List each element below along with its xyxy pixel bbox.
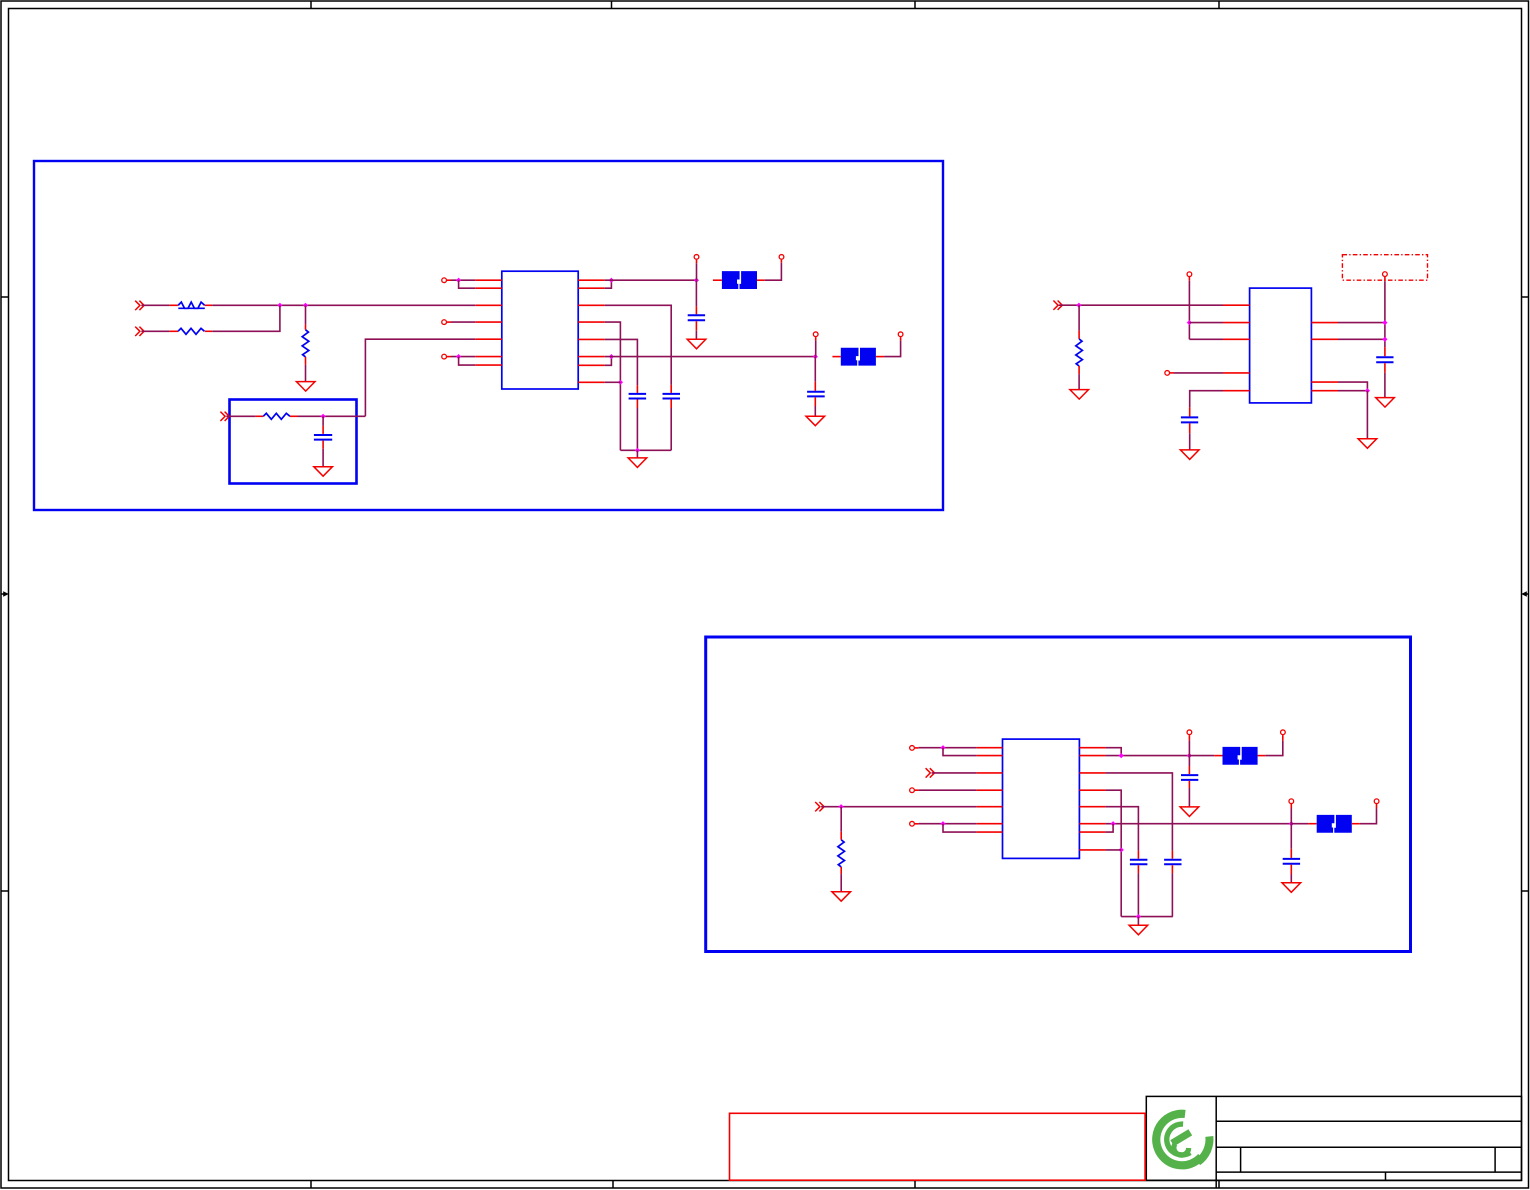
pin 9 [1079, 755, 1105, 757]
wire [1366, 391, 1368, 439]
wire [459, 357, 476, 366]
wire [1265, 741, 1283, 756]
junction [813, 354, 818, 359]
capacitor C2a [629, 385, 647, 450]
pin 1 [977, 747, 1003, 749]
terminal circle [1281, 730, 1286, 735]
capacitor C2b [663, 385, 681, 450]
ground [1282, 883, 1301, 893]
junction [940, 821, 945, 826]
terminal circle [813, 332, 818, 337]
wire [1105, 849, 1121, 851]
junction [1111, 821, 1116, 826]
wire [1189, 338, 1223, 340]
junction [940, 745, 945, 750]
terminal circle [1165, 371, 1170, 376]
wire [605, 305, 672, 385]
pin 5 [977, 806, 1003, 808]
pin 6 [1311, 322, 1338, 324]
pin stub [876, 356, 884, 358]
pin stub [1258, 755, 1266, 757]
ground [314, 467, 333, 477]
pin 7 [475, 364, 502, 366]
wire [1105, 807, 1138, 851]
port P3 [220, 412, 229, 421]
junction [1076, 303, 1081, 308]
pin 3 [1223, 338, 1250, 340]
IC U2 [1250, 288, 1312, 403]
company logo [1156, 1114, 1209, 1166]
pin 13 [578, 356, 605, 358]
wire [451, 356, 475, 358]
resistor R5 vertical [1076, 305, 1083, 389]
wire [605, 339, 638, 385]
wire [605, 356, 816, 358]
junction [277, 303, 282, 308]
port P1 [135, 301, 144, 310]
junction [694, 278, 699, 283]
junction [1382, 337, 1387, 342]
pin stub [447, 279, 451, 281]
pin stub [832, 356, 840, 358]
wire [605, 357, 612, 366]
pin stub [757, 279, 765, 281]
pin stub [780, 260, 782, 263]
wire [1291, 823, 1308, 825]
pin 14 [1079, 831, 1105, 833]
junction [618, 380, 623, 385]
pin 3 [977, 772, 1003, 774]
junction [609, 278, 614, 283]
terminal circle [910, 746, 915, 751]
pin 5 [1223, 390, 1250, 392]
terminal circle [1383, 272, 1388, 277]
pin stub [713, 279, 722, 281]
terminal circle [910, 821, 915, 826]
resistor R4 [263, 413, 290, 419]
pin 12 [1079, 806, 1105, 808]
wire [1338, 338, 1385, 340]
IC U1 [502, 271, 578, 389]
ground [628, 458, 647, 468]
dashed designator box [1342, 255, 1427, 281]
terminal circle [442, 278, 447, 283]
pin stub [169, 304, 178, 306]
ferrite bead FB4 [1317, 815, 1352, 833]
terminal circle [1289, 799, 1294, 804]
pin 2 [1223, 322, 1250, 324]
wire [821, 806, 977, 808]
ground [296, 382, 315, 392]
wire [1105, 824, 1113, 832]
terminal circle [1187, 272, 1192, 277]
pin 4 [475, 321, 502, 323]
port P5 [926, 768, 935, 777]
junction [609, 354, 614, 359]
terminal circle [694, 255, 699, 260]
wire [605, 322, 621, 450]
wire [696, 260, 698, 281]
junction [1136, 914, 1141, 919]
terminal circle [442, 320, 447, 325]
port P2 [135, 327, 144, 336]
wire [212, 304, 475, 306]
ground [1376, 398, 1395, 408]
capacitor C8b [1164, 851, 1181, 917]
junction [1119, 753, 1124, 758]
junction [635, 448, 640, 453]
ground [832, 892, 851, 902]
pin 4 [977, 789, 1003, 791]
pin stub [290, 415, 298, 417]
resistor R3 vertical [302, 305, 309, 381]
wire [1188, 277, 1190, 339]
junction [1289, 821, 1294, 826]
wire [1188, 735, 1190, 756]
pin stub [900, 337, 902, 341]
capacitor C5 [1181, 407, 1198, 450]
pin 2 [977, 755, 1003, 757]
wire bus [1121, 916, 1173, 918]
ground [1180, 450, 1199, 460]
pin 7 [977, 831, 1003, 833]
pin 15 [578, 381, 605, 383]
pin 8 [1311, 381, 1338, 383]
notes box (red) [730, 1113, 1146, 1180]
wire [1338, 382, 1367, 391]
terminal circle [1374, 799, 1379, 804]
ground [1070, 390, 1089, 400]
wire [932, 772, 977, 774]
junction [1187, 320, 1192, 325]
pin 4 [1223, 372, 1250, 374]
pin 1 [1223, 304, 1250, 306]
pin stub [1352, 823, 1360, 825]
pin 13 [1079, 823, 1105, 825]
terminal circle [442, 354, 447, 359]
pin 6 [977, 823, 1003, 825]
terminal circle [898, 332, 903, 337]
wire [459, 280, 476, 288]
capacitor C6 [1376, 347, 1393, 398]
wire [298, 415, 366, 417]
ferrite bead FB2 [841, 348, 876, 366]
junction [1365, 388, 1370, 393]
pin stub [169, 330, 178, 332]
pin 10 [1079, 772, 1105, 774]
wire [765, 263, 782, 281]
junction [1187, 753, 1192, 758]
junction [303, 303, 308, 308]
wire [943, 748, 977, 756]
port P4 [1053, 301, 1062, 310]
pin 15 [1079, 849, 1105, 851]
wire [451, 279, 475, 281]
ground [1358, 439, 1377, 449]
region box 2 [230, 400, 357, 484]
wire [1059, 304, 1223, 306]
pin 8 [578, 279, 605, 281]
resistor R2 [178, 328, 205, 334]
wire [1290, 804, 1292, 824]
wire [226, 415, 255, 417]
wire [915, 747, 977, 749]
junction [1119, 847, 1124, 852]
wire [1338, 390, 1367, 392]
region box 1 [34, 161, 943, 510]
wire [1105, 823, 1291, 825]
pin stub [1308, 823, 1316, 825]
pin stub [255, 415, 263, 417]
capacitor C3 [807, 357, 825, 417]
pin 9 [578, 287, 605, 289]
ferrite bead FB1 [722, 271, 757, 289]
pin 2 [475, 287, 502, 289]
wire [1384, 277, 1386, 347]
pin stub [1376, 804, 1378, 809]
capacitor C4 [314, 416, 332, 466]
wire [1360, 809, 1377, 824]
wire [141, 304, 169, 306]
resistor R6 vertical [838, 807, 845, 892]
pin 5 [475, 338, 502, 340]
wire [1137, 917, 1139, 926]
pin stub [205, 304, 212, 306]
terminal circle [1187, 730, 1192, 735]
wire [1105, 790, 1121, 916]
wire [915, 789, 977, 791]
ground [806, 416, 825, 426]
terminal circle [779, 255, 784, 260]
pin 7 [1311, 338, 1338, 340]
wire [884, 341, 901, 357]
wire [1105, 773, 1172, 851]
junction [1382, 320, 1387, 325]
junction [839, 804, 844, 809]
wire [1105, 755, 1189, 757]
ferrite bead FB3 [1223, 747, 1258, 765]
pin stub [447, 321, 451, 323]
wire [1170, 372, 1223, 374]
pin 3 [475, 304, 502, 306]
ground [1129, 925, 1148, 935]
terminal circle [910, 788, 915, 793]
pin 14 [578, 364, 605, 366]
wire [141, 330, 169, 332]
wire [915, 823, 977, 825]
wire [605, 280, 612, 288]
junction [456, 278, 461, 283]
pin 9 [1311, 390, 1338, 392]
pin stub [1214, 755, 1222, 757]
pin 8 [1079, 747, 1105, 749]
wire [1338, 322, 1385, 324]
capacitor C7 [1181, 756, 1198, 807]
pin stub [1282, 735, 1284, 741]
wire from box2 net [365, 339, 475, 416]
pin 10 [578, 304, 605, 306]
wire [943, 824, 977, 832]
capacitor C9 [1283, 824, 1300, 883]
wire [1189, 322, 1223, 324]
wire [212, 305, 280, 331]
port P6 [815, 802, 824, 811]
pin 12 [578, 338, 605, 340]
title block outline [1146, 1096, 1521, 1188]
resistor R1 [178, 302, 205, 308]
pin 6 [475, 356, 502, 358]
region box 3 [706, 637, 1411, 952]
capacitor C1 [688, 280, 705, 339]
wire [605, 381, 621, 383]
wire [815, 337, 817, 357]
wire [636, 450, 638, 458]
pin 11 [1079, 789, 1105, 791]
wire [1190, 391, 1223, 408]
wire bus [620, 449, 671, 451]
pin 1 [475, 279, 502, 281]
junction [321, 414, 326, 419]
wire [1105, 748, 1121, 756]
ground [687, 339, 706, 349]
wire [451, 321, 475, 323]
wire [1189, 755, 1214, 757]
ground [1180, 807, 1199, 817]
junction [456, 354, 461, 359]
pin 11 [578, 321, 605, 323]
pin stub [205, 330, 212, 332]
pin stub [447, 356, 451, 358]
wire [605, 279, 697, 281]
IC U3 [1003, 739, 1080, 858]
capacitor C8a [1130, 851, 1148, 917]
